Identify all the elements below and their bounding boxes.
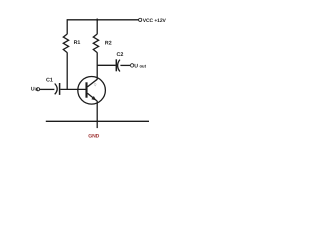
transistor Q1 collector stroke: [87, 79, 97, 87]
svg-text:Q: Q: [94, 83, 97, 87]
svg-text:Uin: Uin: [31, 87, 39, 93]
wire R1 branch lower: [66, 53, 68, 90]
transistor Q1 body: [78, 77, 106, 105]
svg-text:U out: U out: [134, 64, 146, 70]
transistor Q1 base bar: [85, 82, 87, 97]
wire C2 to Uout terminal: [120, 64, 130, 66]
terminal VCC: [139, 18, 142, 21]
transistor Q1 emitter arrowhead: [91, 96, 96, 100]
wire emitter down: [96, 101, 98, 128]
wire Uin to C1: [40, 88, 55, 90]
terminal Uin: [36, 88, 39, 91]
svg-text:C1: C1: [46, 77, 53, 83]
transistor Q1 emitter stroke: [87, 93, 97, 101]
node top rail / R2 junction: [96, 19, 98, 22]
resistor R2: [93, 34, 98, 53]
capacitor C2 curved plate: [118, 60, 120, 72]
capacitor C1 straight plate: [59, 83, 61, 95]
svg-text:GND: GND: [88, 134, 99, 140]
wire ground rail: [46, 120, 149, 122]
wire R2 branch upper: [96, 20, 98, 34]
svg-text:R2: R2: [105, 40, 112, 46]
svg-text:VCC +12V: VCC +12V: [143, 18, 167, 24]
capacitor C2 straight plate: [115, 59, 117, 71]
resistor R1: [63, 34, 68, 53]
svg-text:C2: C2: [117, 52, 124, 58]
wire C1 to base: [60, 88, 86, 90]
terminal Uout: [130, 64, 133, 67]
wire C2 branch: [97, 64, 115, 66]
svg-text:R1: R1: [74, 40, 81, 46]
wire R1 branch upper: [66, 19, 68, 34]
capacitor C1 curved plate: [55, 84, 58, 95]
wire R2 to collector node: [96, 53, 98, 80]
wire top VCC rail: [67, 19, 138, 21]
